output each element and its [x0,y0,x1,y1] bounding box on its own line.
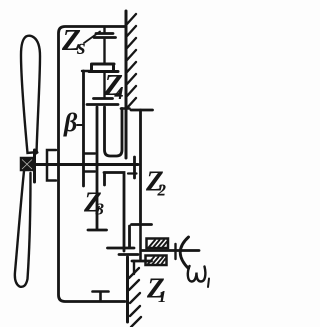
svg-text:1: 1 [158,287,167,306]
svg-text:4: 4 [114,83,124,103]
svg-text:β: β [63,108,78,137]
svg-text:s: s [76,34,86,59]
svg-text:3: 3 [95,200,105,219]
svg-text:2: 2 [157,181,167,200]
